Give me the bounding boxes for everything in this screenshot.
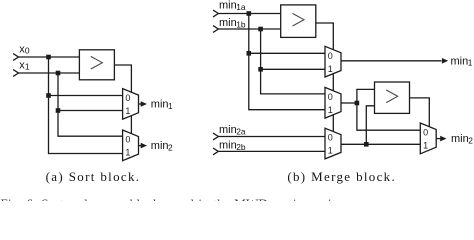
svg-text:min: min: [219, 0, 237, 12]
svg-text:1: 1: [328, 146, 333, 156]
svg-text:0: 0: [328, 51, 333, 61]
wire x1 to mux in1: [58, 110, 123, 112]
node x1 branch junction: [56, 108, 61, 113]
svg-text:min: min: [219, 139, 237, 151]
node x1 junction: [56, 71, 61, 76]
wire x1 vertical branch: [58, 73, 123, 136]
wire min2 output: [139, 145, 142, 147]
wire min1 output: [139, 103, 142, 105]
wire node to mux D in0: [357, 103, 420, 130]
wire min1a: [218, 13, 280, 15]
svg-text:1: 1: [468, 58, 473, 68]
wire branch to comparator U7 bottom input: [366, 106, 374, 145]
node mux U8 output junction: [364, 142, 369, 147]
svg-text:min: min: [151, 140, 169, 152]
wire min1a vertical branch: [249, 14, 325, 110]
svg-text:0: 0: [328, 133, 333, 143]
wire min2a: [218, 136, 325, 138]
comparator U1: [79, 50, 114, 80]
node x0 junction: [46, 55, 51, 60]
mux U3: [123, 130, 139, 161]
svg-text:(b) Merge block.: (b) Merge block.: [287, 169, 396, 184]
mux U8: [325, 128, 341, 159]
arrowhead min1 merge: [442, 58, 448, 64]
mux U5: [325, 46, 341, 77]
comparator U7: [375, 82, 410, 113]
wire mux U8 output to mux D in1: [341, 143, 420, 145]
wire min1b vertical branch: [261, 29, 325, 94]
input min1a chevron: [213, 10, 218, 17]
node min1b junction: [258, 27, 263, 32]
svg-text:2: 2: [468, 136, 473, 146]
svg-text:1a: 1a: [236, 2, 246, 12]
node x0 branch junction: [46, 93, 51, 98]
wire min1b to mux A in1: [261, 68, 325, 70]
node min1a junction: [247, 11, 252, 16]
input x0 chevron: [13, 54, 18, 61]
svg-text:Fig. 6: Sort and merge blocks: Fig. 6: Sort and merge blocks used in th…: [1, 196, 340, 201]
wire comparator U1 output to select line: [115, 65, 131, 134]
mux U2: [123, 89, 139, 120]
mux U9: [420, 123, 436, 154]
input min1b chevron: [213, 26, 218, 33]
svg-text:1: 1: [25, 62, 30, 72]
wire mux U6 output node: [341, 102, 357, 104]
svg-text:0: 0: [125, 135, 130, 145]
svg-text:1: 1: [168, 101, 173, 111]
arrowhead min1 sort: [141, 101, 147, 107]
svg-text:1: 1: [125, 148, 130, 158]
node min1b branch junction: [258, 67, 263, 72]
svg-text:0: 0: [125, 93, 130, 103]
svg-text:1b: 1b: [236, 19, 246, 29]
input x1 chevron: [13, 70, 18, 77]
wire comparator U7 output to select line: [410, 98, 430, 127]
arrowhead min2 sort: [141, 143, 147, 149]
arrowhead min2 merge: [440, 136, 446, 142]
svg-text:min: min: [219, 17, 237, 29]
wire min2b: [218, 150, 325, 152]
svg-text:min: min: [451, 133, 469, 145]
svg-text:min: min: [151, 99, 169, 111]
svg-text:1: 1: [423, 141, 428, 151]
wire node to comparator U7 top input: [357, 89, 375, 103]
svg-text:2a: 2a: [236, 126, 246, 136]
wire x1 horizontal: [19, 72, 80, 74]
input min2b chevron: [213, 148, 218, 155]
svg-text:min: min: [219, 124, 237, 136]
wire min1b: [218, 28, 280, 30]
node mux U6 output junction: [355, 101, 360, 106]
svg-text:0: 0: [328, 92, 333, 102]
wire x0 to mux in0: [49, 95, 123, 97]
wire x0 vertical branch: [49, 57, 123, 154]
svg-text:1: 1: [328, 105, 333, 115]
input min2a chevron: [213, 133, 218, 140]
svg-text:0: 0: [25, 46, 30, 56]
svg-text:2: 2: [168, 143, 173, 153]
svg-text:1: 1: [328, 64, 333, 74]
svg-text:1: 1: [125, 106, 130, 116]
comparator U4: [281, 5, 316, 38]
wire min1a to mux A in0: [249, 52, 325, 54]
svg-text:2b: 2b: [236, 142, 246, 152]
svg-text:min: min: [451, 55, 469, 67]
wire comparator U4 output to select line: [316, 23, 334, 132]
wire merge min1 output: [341, 60, 442, 62]
node min1a branch junction: [247, 51, 252, 56]
svg-text:(a) Sort block.: (a) Sort block.: [46, 169, 141, 184]
mux U6: [325, 87, 341, 118]
wire x0 horizontal: [19, 56, 80, 58]
wire merge min2 output: [436, 138, 441, 140]
svg-text:0: 0: [423, 128, 428, 138]
